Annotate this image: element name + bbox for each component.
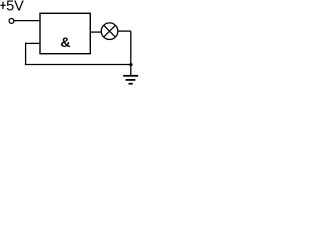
label +5V: [0, 4, 5, 6]
wire bottom: [25, 64, 131, 66]
lamp L1 circle: [101, 23, 118, 40]
terminal circle (input): [9, 18, 14, 23]
ground bar 3: [129, 83, 133, 85]
wire right vertical: [130, 31, 132, 75]
ground bar 1: [123, 75, 138, 77]
svg-text:&: &: [60, 34, 70, 50]
wire gate output: [90, 31, 101, 33]
wire left vertical: [25, 43, 27, 65]
lamp L1 cross: [104, 25, 116, 37]
wire second input: [26, 42, 40, 44]
svg-text:5V: 5V: [6, 0, 24, 15]
junction dot: [129, 63, 132, 66]
ground bar 2: [126, 79, 136, 81]
wire input terminal to gate: [14, 20, 40, 22]
wire lamp to right: [118, 30, 131, 32]
AND gate U1 box: [40, 13, 90, 53]
